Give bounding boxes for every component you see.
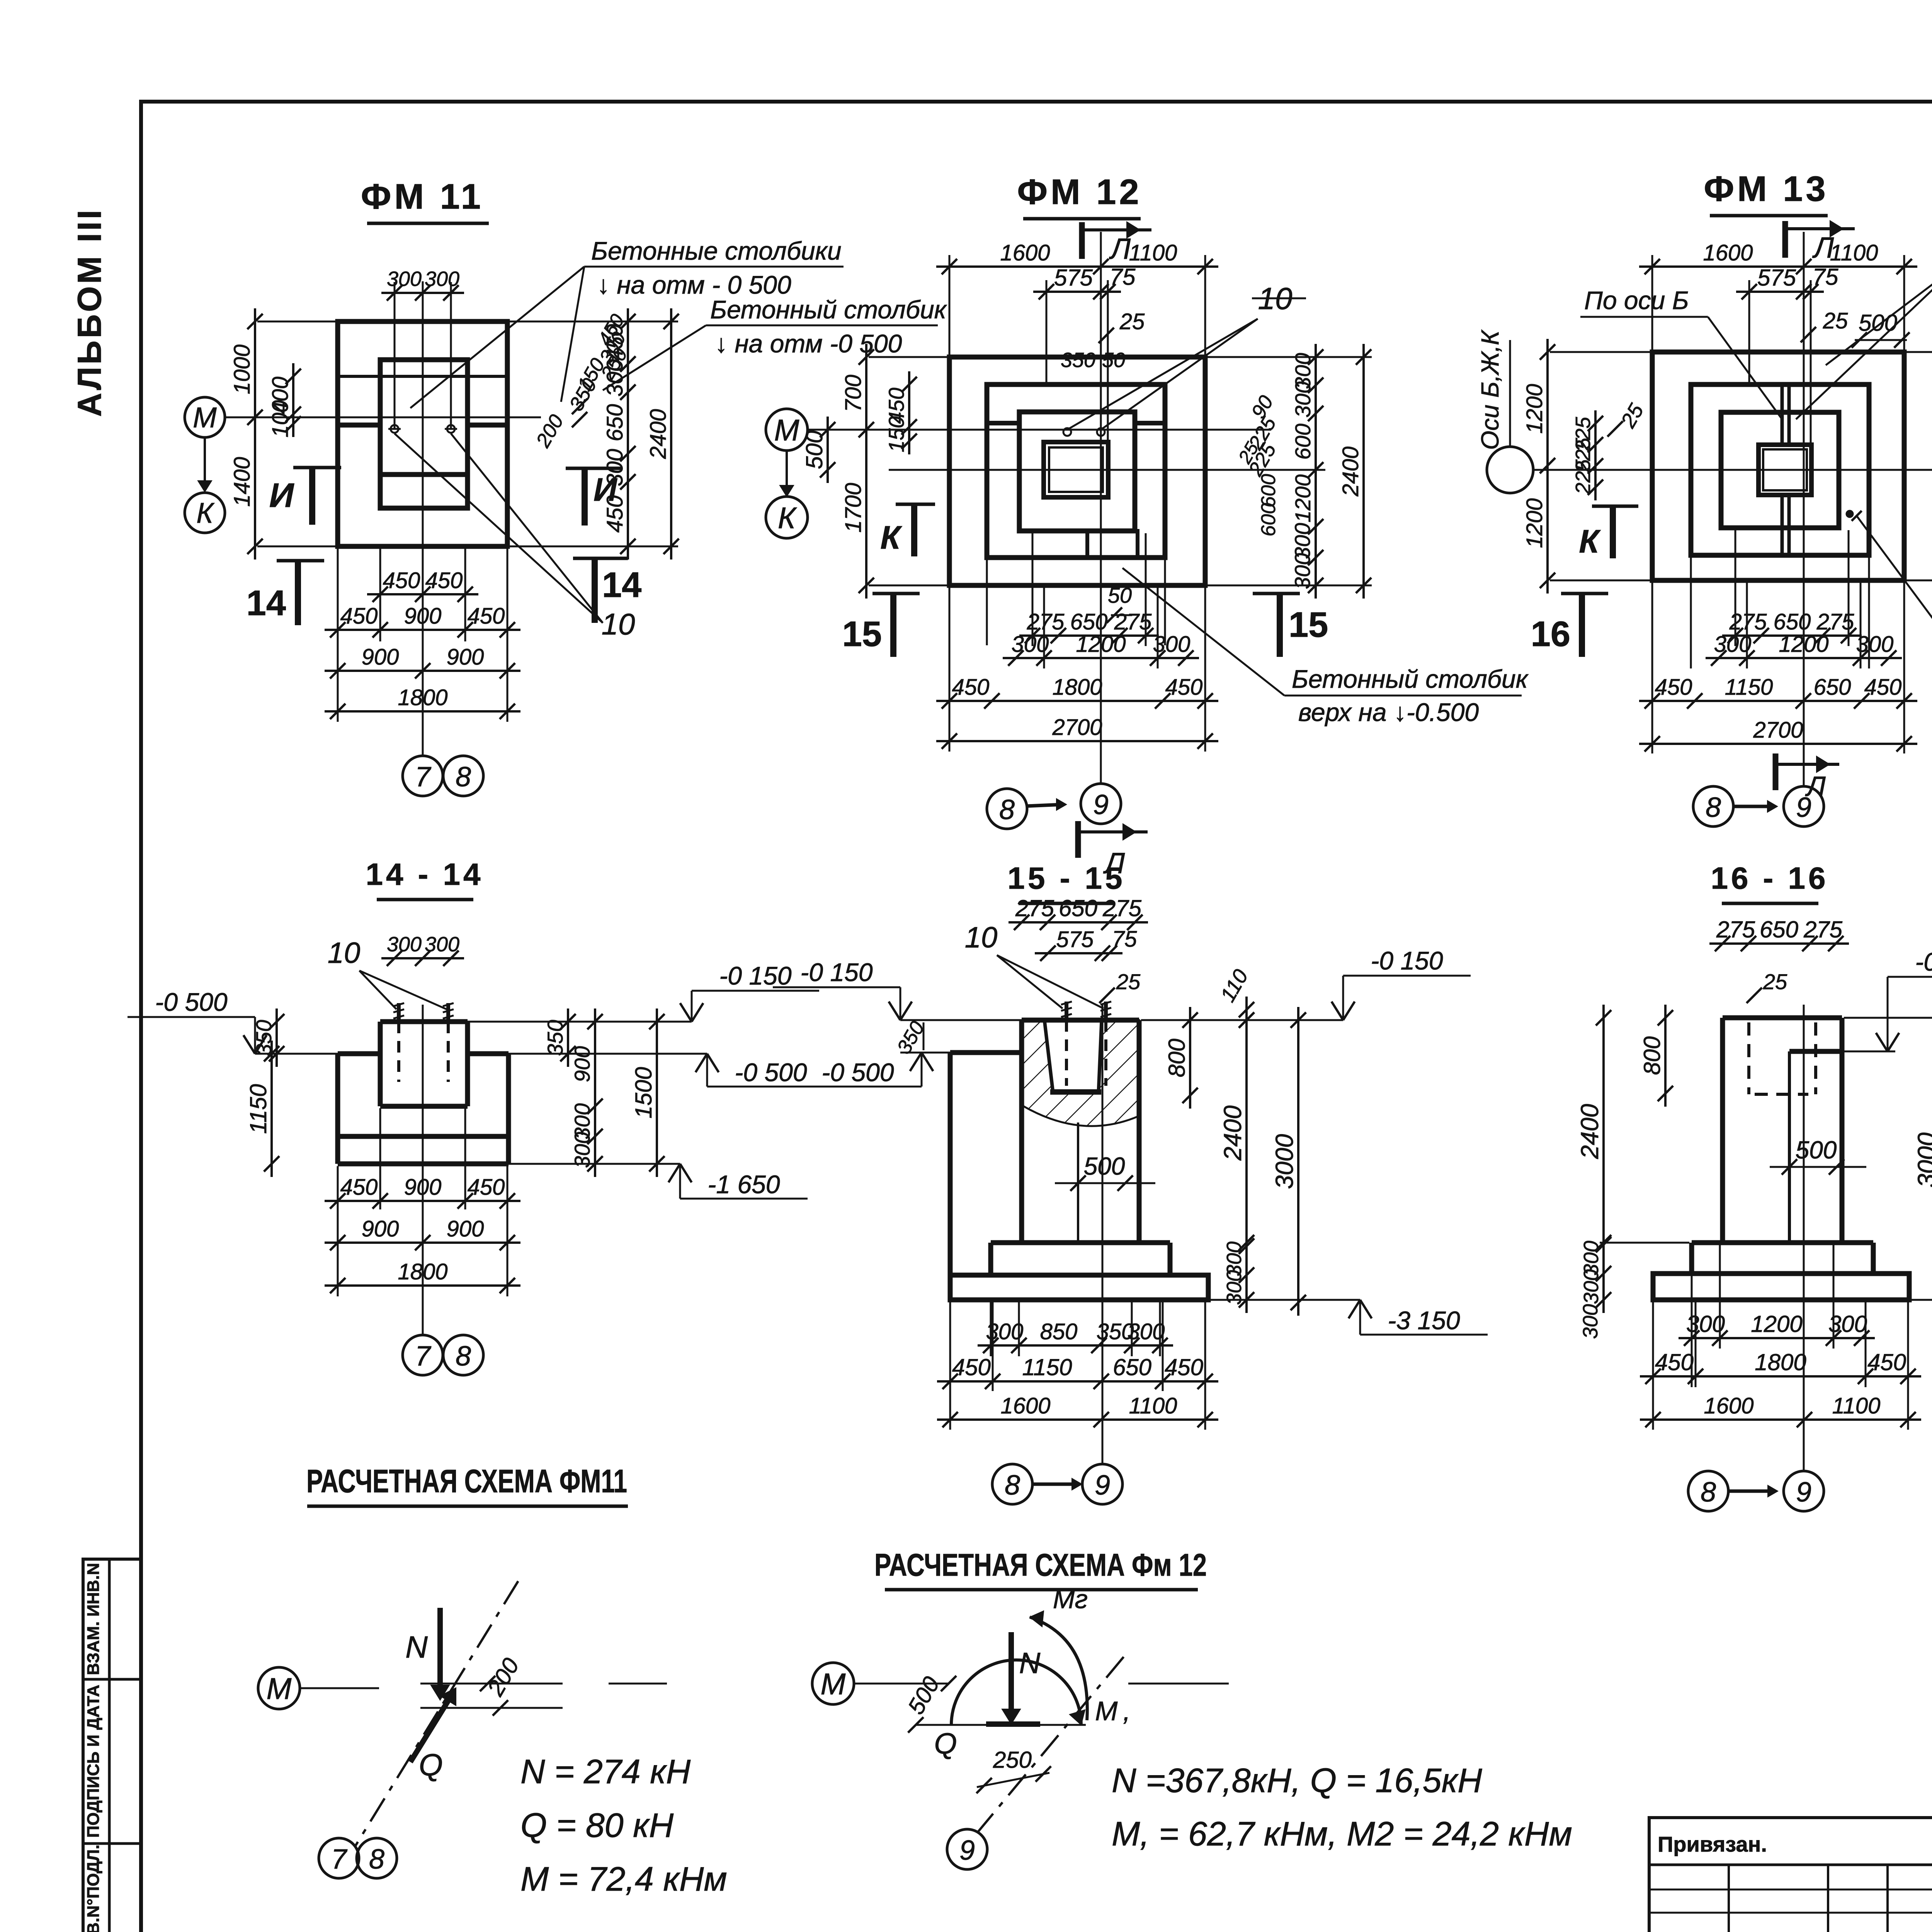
section 15-15 dim 500	[1055, 1182, 1155, 1184]
plan FM12 L marker bottom	[1075, 821, 1081, 858]
plan FM11 section marker I left	[293, 466, 341, 469]
section 15-15 pier contour	[1022, 1018, 1139, 1023]
svg-text:8: 8	[456, 1341, 471, 1372]
svg-text:1100: 1100	[1129, 1393, 1177, 1418]
plan FM11 axis M circle	[185, 397, 225, 437]
svg-text:М: М	[774, 413, 799, 447]
scheme FM11 diagonal dash-dot	[355, 1581, 518, 1847]
svg-text:300: 300	[1579, 1304, 1602, 1339]
svg-text:N =367,8кН, Q = 16,5кН: N =367,8кН, Q = 16,5кН	[1112, 1761, 1482, 1799]
plan FM12 dim 275/650/275	[1019, 634, 1159, 637]
svg-text:N: N	[405, 1630, 428, 1664]
svg-text:К: К	[880, 519, 902, 556]
svg-text:450: 450	[1655, 1349, 1694, 1375]
svg-text:8: 8	[1706, 792, 1721, 823]
section 15-15 elev -0.500 left	[921, 1053, 923, 1087]
svg-text:9: 9	[1093, 789, 1109, 820]
plan FM13 L marker top	[1782, 221, 1788, 258]
svg-text:1000: 1000	[230, 344, 255, 394]
section 14-14 elev -1.650 right	[679, 1164, 681, 1199]
svg-text:900: 900	[404, 1175, 442, 1200]
svg-text:1700: 1700	[841, 483, 866, 532]
svg-text:275: 275	[1803, 917, 1843, 942]
section 16-16 recess contour	[1789, 1049, 1842, 1054]
svg-text:Бетонный столбик: Бетонный столбик	[710, 295, 947, 324]
plan FM12 axis M circle	[766, 409, 808, 451]
svg-text:ФМ 11: ФМ 11	[361, 177, 484, 216]
plan FM12 left witness	[869, 356, 951, 358]
privyazan table	[1649, 1889, 1932, 1891]
svg-text:100: 100	[268, 400, 293, 438]
plan FM13 section marker K left	[1592, 505, 1638, 508]
plan FM11 leaders from labels	[410, 267, 584, 408]
section 14-14 level lines	[255, 1053, 340, 1055]
section 16-16 center axis	[1803, 1005, 1805, 1471]
svg-text:900: 900	[404, 604, 442, 629]
section 14-14 left dim 1150	[270, 1041, 273, 1177]
svg-text:1200: 1200	[1779, 632, 1828, 657]
plan FM13 axis line	[1533, 469, 1932, 471]
svg-text:1150: 1150	[245, 1084, 271, 1134]
svg-text:650: 650	[1113, 1354, 1151, 1380]
section 16-16 dim 275/650/275	[1709, 942, 1849, 945]
svg-text:650: 650	[1774, 609, 1811, 634]
plan FM11 right chain	[627, 308, 629, 560]
plan FM11 right dim 2400	[670, 308, 672, 560]
svg-text:М, = 62,7 кНм, М2 = 24,2 кНм: М, = 62,7 кНм, М2 = 24,2 кНм	[1112, 1815, 1572, 1853]
plan FM11 section marker 14 right	[573, 557, 628, 560]
svg-text:75: 75	[1112, 927, 1137, 952]
svg-text:15 - 15: 15 - 15	[1007, 861, 1125, 895]
svg-text:верх на ↓-0.500: верх на ↓-0.500	[1298, 698, 1479, 726]
svg-text:ФМ 12: ФМ 12	[1017, 172, 1142, 212]
svg-text:900: 900	[362, 1216, 399, 1242]
plan FM13 outer slab contour	[1652, 352, 1904, 580]
svg-text:450: 450	[1655, 675, 1692, 700]
scheme FM12 dim 250	[977, 1773, 1049, 1787]
plan FM13 axis circle	[1487, 447, 1533, 493]
section 14-14 elev -0.500 left	[254, 1017, 256, 1054]
svg-text:8: 8	[369, 1844, 384, 1875]
plan FM12 step2 contour	[987, 384, 1165, 558]
section 14-14 body contour	[338, 1051, 380, 1056]
svg-text:2700: 2700	[1052, 715, 1102, 740]
svg-text:РАСЧЕТНАЯ СХЕМА ФМ11: РАСЧЕТНАЯ СХЕМА ФМ11	[306, 1463, 627, 1499]
svg-text:10: 10	[602, 607, 635, 641]
svg-text:450: 450	[1165, 675, 1203, 700]
svg-text:14 - 14: 14 - 14	[366, 857, 483, 891]
svg-text:М: М	[267, 1672, 292, 1706]
section 15-15 axis circles 8 9	[992, 1464, 1032, 1504]
sidebar stamp boxes	[83, 1559, 141, 1932]
svg-text:900: 900	[362, 645, 399, 670]
section 16-16 extra witness	[1695, 1302, 1697, 1387]
section 15-15 right dim 300/300	[1245, 1230, 1248, 1313]
svg-text:N = 274 кН: N = 274 кН	[520, 1752, 691, 1791]
svg-text:300: 300	[1223, 1270, 1246, 1305]
svg-text:Бетонные столбики: Бетонные столбики	[591, 236, 842, 265]
svg-text:3000: 3000	[1270, 1134, 1298, 1189]
scheme FM12 N arrow	[1009, 1632, 1014, 1716]
svg-text:↓ на отм - 0 500: ↓ на отм - 0 500	[597, 270, 791, 299]
section 15-15 step contour	[991, 1240, 1170, 1245]
plan FM12 dim 450/1800/450	[936, 700, 1218, 702]
svg-text:300: 300	[1856, 632, 1894, 657]
plan FM12 dim 2700	[936, 740, 1218, 742]
section 16-16 dim 300/1200/300	[1679, 1337, 1875, 1339]
section 14-14 elev -0.150 right	[691, 991, 693, 1022]
plan FM13 step2 contour	[1691, 384, 1869, 555]
scheme FM12 beam line lower	[916, 1724, 1086, 1726]
plan FM11 axis M-K arrow	[204, 438, 206, 490]
svg-text:25: 25	[1119, 309, 1145, 334]
section 15-15 cup outline	[1044, 1020, 1102, 1092]
svg-text:1100: 1100	[1129, 240, 1177, 265]
svg-text:500: 500	[1859, 310, 1897, 336]
svg-text:275: 275	[1716, 917, 1755, 942]
section 15-15 elev -0.150 right	[1342, 976, 1344, 1020]
svg-text:200: 200	[482, 1654, 524, 1701]
section 15-15 dim 300/850/350/300	[978, 1344, 1173, 1347]
plan FM12 axis circles 8 9	[987, 789, 1027, 829]
svg-text:900: 900	[570, 1046, 594, 1082]
svg-text:650: 650	[1070, 609, 1108, 634]
plan FM11 dim 300/300	[381, 292, 464, 294]
plan FM12 vertical axis	[1100, 232, 1102, 784]
section 14-14 dim 300/300	[381, 957, 464, 959]
plan FM12 dim 300/1200/300	[1003, 657, 1199, 659]
svg-text:25: 25	[1823, 308, 1848, 333]
section 15-15 dim 1600/1100	[937, 1418, 1218, 1421]
svg-text:650: 650	[602, 404, 628, 442]
svg-text:650: 650	[1760, 917, 1798, 942]
section 15-15 bottom witness	[949, 1302, 951, 1430]
svg-text:2700: 2700	[1753, 718, 1803, 743]
svg-text:300: 300	[1580, 1269, 1603, 1304]
svg-text:450: 450	[952, 1354, 991, 1380]
svg-text:К: К	[1579, 523, 1601, 560]
plan FM13 right witness	[1906, 351, 1932, 353]
section 14-14 center axis	[422, 1005, 424, 1335]
svg-text:75: 75	[1813, 264, 1838, 290]
section 14-14 right dim 1500	[656, 1009, 658, 1177]
section 16-16 dashed stolbik outline	[1747, 1022, 1750, 1094]
svg-text:3000: 3000	[1913, 1132, 1932, 1187]
svg-text:1100: 1100	[1832, 1393, 1881, 1418]
svg-text:9: 9	[1095, 1470, 1110, 1501]
plan FM13 step3 contour	[1721, 412, 1839, 528]
svg-text:1800: 1800	[398, 1259, 447, 1284]
svg-text:450: 450	[340, 604, 378, 629]
svg-text:1500: 1500	[631, 1067, 656, 1118]
svg-text:1200: 1200	[1522, 384, 1547, 434]
svg-text:500: 500	[1084, 1152, 1125, 1180]
section 15-15 right dim 110	[1245, 997, 1248, 1033]
section 16-16 left dim 800	[1664, 1005, 1667, 1107]
section 16-16 elev -0.500	[1887, 977, 1889, 1051]
svg-text:300: 300	[425, 933, 459, 956]
plan FM12 section marker 15 left	[872, 592, 920, 595]
svg-text:-0 500: -0 500	[1915, 947, 1932, 976]
svg-text:ПОДПИСЬ И ДАТА: ПОДПИСЬ И ДАТА	[84, 1685, 103, 1838]
svg-text:-0 150: -0 150	[1371, 946, 1443, 975]
plan FM12 extra witness lines	[986, 560, 988, 645]
svg-text:1600: 1600	[1000, 240, 1050, 265]
svg-text:2400: 2400	[1576, 1104, 1604, 1159]
svg-text:650: 650	[1814, 675, 1851, 700]
plan FM11 outer slab contour	[338, 321, 507, 546]
svg-text:900: 900	[447, 645, 484, 670]
svg-text:Бетонный столбик: Бетонный столбик	[1292, 665, 1529, 693]
svg-text:По оси Б: По оси Б	[1584, 286, 1689, 315]
svg-text:450: 450	[1867, 1349, 1906, 1375]
svg-text:575: 575	[1056, 927, 1094, 952]
section 15-15 dim 575/75	[1035, 952, 1122, 954]
svg-text:1800: 1800	[1755, 1349, 1806, 1375]
section 14-14 left dim 350	[276, 1009, 278, 1067]
plan FM12 right dim 2400	[1362, 344, 1365, 599]
svg-text:450: 450	[1864, 675, 1902, 700]
section 14-14 pedestal contour	[380, 1019, 468, 1024]
section 16-16 slab contour	[1653, 1274, 1909, 1300]
svg-text:15: 15	[842, 614, 882, 654]
svg-text:450: 450	[468, 604, 505, 629]
svg-text:450: 450	[952, 675, 990, 700]
plan FM11 dim 900/900	[325, 670, 520, 672]
plan FM11 anchor bolts	[391, 425, 398, 433]
plan FM12 left dim 500	[827, 417, 829, 483]
svg-text:8: 8	[456, 762, 471, 793]
svg-text:16: 16	[1531, 614, 1570, 654]
svg-text:Мг: Мг	[1053, 1585, 1088, 1614]
plan FM12 left dim 700/1700	[865, 344, 867, 599]
scheme FM11 beam lines	[420, 1683, 563, 1685]
svg-text:К: К	[778, 501, 797, 535]
svg-text:Q = 80 кН: Q = 80 кН	[520, 1806, 674, 1844]
plan FM12 right witness	[1207, 356, 1372, 358]
svg-text:И: И	[269, 476, 294, 514]
section 14-14 dim 1800	[325, 1284, 520, 1287]
svg-text:РАСЧЕТНАЯ СХЕМА Фм 12: РАСЧЕТНАЯ СХЕМА Фм 12	[874, 1548, 1207, 1583]
section 15-15 elev -0.150 left	[900, 987, 901, 1020]
svg-text:1600: 1600	[1703, 240, 1753, 265]
plan FM13 stolbik strip above and below column	[1781, 384, 1784, 445]
svg-text:ФМ 13: ФМ 13	[1704, 169, 1828, 209]
plan FM12 dim 575/75	[1033, 291, 1121, 293]
plan FM11 section marker 14 left	[277, 559, 324, 563]
scheme FM12 axis M circle	[812, 1663, 854, 1704]
svg-text:1600: 1600	[1704, 1393, 1753, 1418]
section 15-15 right dim 800	[1189, 1007, 1191, 1109]
plan FM12 outer slab contour	[949, 357, 1205, 585]
plan FM13 column contour	[1759, 445, 1811, 495]
plan FM11 axis M line	[226, 417, 541, 418]
plan FM11 pedestal contour	[380, 360, 468, 508]
plan FM13 dim 300/1200/300	[1706, 657, 1902, 659]
svg-text:600: 600	[1257, 503, 1280, 537]
svg-text:10: 10	[965, 921, 998, 954]
section 14-14 elev -0.500 right	[706, 1054, 708, 1087]
svg-text:2400: 2400	[1338, 446, 1363, 497]
svg-text:-3 150: -3 150	[1388, 1306, 1460, 1335]
plan FM13 left dim 1200/1200	[1546, 339, 1549, 594]
plan FM13 vertical axis	[1803, 232, 1805, 786]
svg-text:-0 500: -0 500	[821, 1058, 894, 1087]
svg-text:8: 8	[999, 794, 1015, 825]
svg-text:850: 850	[1040, 1319, 1078, 1344]
plan FM13 dim 1600/1100	[1639, 265, 1917, 268]
section 14-14 right chain	[594, 1009, 596, 1177]
svg-text:450: 450	[340, 1175, 378, 1200]
svg-text:16 - 16: 16 - 16	[1711, 861, 1828, 895]
section 16-16 pier contour	[1723, 1015, 1842, 1020]
section 15-15 center axis	[1102, 1005, 1104, 1464]
svg-text:225: 225	[1571, 459, 1595, 495]
section 15-15 hatched cup region	[1022, 1020, 1139, 1126]
svg-text:300: 300	[1291, 381, 1315, 417]
svg-text:450: 450	[425, 568, 463, 593]
svg-text:1800: 1800	[1052, 675, 1102, 700]
plan FM13 dim 275/650/275	[1722, 634, 1862, 637]
svg-text:М ,: М ,	[1095, 1696, 1131, 1726]
svg-text:8: 8	[1701, 1477, 1716, 1508]
section 15-15 rebar hooks	[1061, 1002, 1072, 1005]
svg-text:Q: Q	[419, 1748, 443, 1782]
section 14-14 dim 900/900	[325, 1242, 520, 1244]
section 16-16 dim 450/1800/450	[1640, 1375, 1921, 1378]
section 14-14 axis circles 7 8	[403, 1335, 443, 1375]
plan FM13 section marker 16 left	[1561, 592, 1608, 595]
section 15-15 extra witness	[1018, 1302, 1020, 1356]
plan FM13 dim 450/1150/650/450	[1639, 700, 1917, 702]
svg-text:1200: 1200	[1522, 498, 1547, 548]
svg-text:275: 275	[1015, 895, 1054, 921]
section 16-16 left chain 300s	[1602, 1230, 1605, 1313]
svg-text:275: 275	[1102, 895, 1142, 921]
section 15-15 right dim 3000	[1297, 1007, 1299, 1316]
svg-text:50: 50	[1108, 583, 1132, 607]
svg-text:ВЗАМ. ИНВ.N: ВЗАМ. ИНВ.N	[84, 1563, 103, 1675]
svg-text:9: 9	[959, 1835, 975, 1866]
svg-text:Л: Л	[1805, 771, 1826, 802]
plan FM12 top witness	[949, 255, 951, 359]
plan FM12 anchor bolts	[1063, 428, 1071, 436]
svg-text:↓ на отм -0 500: ↓ на отм -0 500	[715, 329, 902, 358]
svg-text:450: 450	[1165, 1354, 1203, 1380]
plan FM11 axis circles 7 8	[403, 756, 443, 796]
section 16-16 dim 500	[1770, 1166, 1866, 1168]
section 15-15 slab contour	[950, 1275, 1208, 1300]
svg-text:350: 350	[1061, 349, 1095, 372]
scheme FM11 axis line	[300, 1687, 379, 1689]
plan FM13 left dim 225s	[1594, 410, 1597, 500]
section 15-15 right dim 2400	[1245, 1007, 1248, 1259]
svg-text:АЛЬБОМ ІІІ: АЛЬБОМ ІІІ	[71, 207, 108, 417]
svg-text:250: 250	[993, 1747, 1032, 1773]
section 14-14 rebar hooks	[393, 1003, 404, 1006]
privyazan box	[1649, 1818, 1932, 1932]
plan FM12 column contour	[1044, 442, 1108, 497]
svg-text:7: 7	[415, 762, 432, 793]
plan FM12 step3 contour	[1019, 412, 1135, 531]
svg-text:25: 25	[1763, 969, 1787, 994]
svg-text:Q: Q	[934, 1727, 957, 1760]
svg-text:9: 9	[1796, 1477, 1811, 1508]
plan FM11 ledge lines	[338, 375, 507, 378]
svg-text:500: 500	[903, 1672, 944, 1719]
plan FM11 vertical axis line	[422, 281, 424, 756]
section 15-15 rebar dashed	[1065, 1020, 1068, 1086]
section 16-16 dim 1600/1100	[1640, 1418, 1921, 1421]
svg-text:1150: 1150	[1725, 675, 1773, 700]
section 15-15 dim 275/650/275	[1009, 921, 1148, 923]
svg-text:50: 50	[1102, 349, 1125, 372]
svg-text:1200: 1200	[1291, 474, 1315, 523]
svg-text:150: 150	[884, 416, 908, 452]
svg-text:7: 7	[415, 1341, 432, 1372]
scheme FM11 N arrow	[437, 1608, 443, 1692]
svg-text:Оси Б,Ж,К: Оси Б,Ж,К	[1476, 329, 1504, 450]
section 16-16 bottom witness	[1652, 1302, 1654, 1430]
plan FM13 extra witness lines	[1690, 557, 1692, 668]
svg-text:300: 300	[387, 267, 422, 291]
scheme FM12 diagonal dash-dot	[978, 1657, 1124, 1832]
scheme FM11 axis M circle	[258, 1667, 300, 1709]
svg-text:М: М	[193, 401, 217, 434]
plan FM12 axis K circle	[766, 497, 808, 538]
plan FM11 dim 1800	[325, 710, 520, 713]
plan FM12 inner ledge segments	[987, 421, 1019, 425]
svg-text:-0 150: -0 150	[800, 958, 872, 986]
plan FM11 dim 450/450	[367, 593, 478, 595]
svg-text:25: 25	[1616, 400, 1648, 432]
svg-text:325: 325	[1928, 424, 1932, 465]
plan FM12 L marker top	[1079, 222, 1085, 259]
plan FM11 bottom witness lines	[337, 549, 339, 722]
section 15-15 left block contour	[950, 1050, 1022, 1055]
svg-text:800: 800	[1164, 1039, 1190, 1077]
svg-text:15: 15	[1289, 605, 1328, 645]
plan FM13 left witness	[1550, 351, 1654, 353]
plan FM11 dim 450/900/450	[325, 629, 520, 631]
section 15-15 elev -3.150 right	[1359, 1300, 1361, 1335]
svg-text:1800: 1800	[398, 685, 447, 710]
svg-text:-0 500: -0 500	[735, 1058, 807, 1087]
svg-text:300: 300	[425, 267, 459, 291]
svg-text:К: К	[196, 497, 215, 529]
svg-text:14: 14	[247, 583, 286, 623]
scheme FM11 Q arrow	[410, 1693, 453, 1762]
scheme FM12 axis circle 9	[947, 1829, 987, 1869]
svg-text:1200: 1200	[1076, 632, 1126, 657]
section 15-15 level lines	[900, 1019, 1024, 1021]
plan FM12 bottom witness	[949, 587, 951, 752]
scheme FM11 axis circles 7 8	[319, 1838, 359, 1878]
svg-text:-0 500: -0 500	[155, 988, 227, 1016]
svg-text:М = 72,4 кНм: М = 72,4 кНм	[520, 1860, 727, 1898]
svg-text:14: 14	[602, 565, 641, 605]
svg-text:350: 350	[543, 1020, 567, 1056]
section 14-14 right dim 350	[567, 1009, 569, 1067]
svg-text:575: 575	[1757, 265, 1796, 291]
scheme FM12 M2 arc	[1030, 1617, 1087, 1720]
svg-text:8: 8	[1005, 1470, 1020, 1501]
svg-text:10: 10	[328, 937, 361, 969]
svg-text:900: 900	[447, 1216, 484, 1242]
svg-text:2400: 2400	[646, 409, 671, 459]
section 14-14 dim 450/900/450	[325, 1200, 520, 1202]
section 14-14 bottom witness	[337, 1166, 339, 1296]
